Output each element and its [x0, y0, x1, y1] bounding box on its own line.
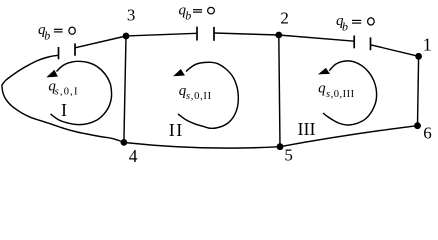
loop arrow I (arc)	[51, 61, 112, 124]
wire: node 2 to capacitor C3	[279, 35, 354, 41]
wire: capacitor C1 to node 3	[75, 36, 126, 48]
wire: node 4 to node 5 (bottom)	[124, 142, 280, 148]
label qb=0 over capacitor C3	[336, 13, 374, 34]
label qs,0,II inside loop II	[179, 83, 212, 102]
label qb=0 over capacitor C1	[38, 22, 75, 42]
svg-text:1: 1	[423, 35, 432, 55]
loop arrow II (arc)	[178, 62, 238, 128]
svg-text:b: b	[342, 20, 348, 34]
svg-text:III: III	[298, 119, 316, 139]
capacitor C3 right plate	[370, 37, 372, 50]
node 1	[415, 53, 422, 60]
loop arrow III (arc)	[323, 61, 377, 125]
svg-text:2: 2	[280, 8, 289, 27]
wire: node 3 to capacitor C2	[126, 33, 197, 36]
svg-text:3: 3	[127, 5, 135, 24]
wire: capacitor C3 to node 1	[371, 45, 419, 57]
loop arrow I arrowhead	[47, 70, 57, 77]
capacitor C2 left plate	[196, 27, 198, 41]
capacitor C3 left plate	[353, 36, 355, 49]
svg-text:s,0,III: s,0,III	[326, 89, 355, 100]
loop arrow III arrowhead	[319, 68, 330, 74]
svg-text:b: b	[185, 9, 191, 23]
capacitor C2 right plate	[213, 27, 215, 41]
capacitor C1 right plate	[74, 43, 76, 55]
svg-text:5: 5	[284, 145, 293, 164]
node 4	[121, 139, 128, 146]
label qs,0,I inside loop I	[48, 79, 78, 98]
svg-text:q: q	[318, 81, 326, 97]
wire: edge capacitor C1 to left bulge (upper branch of outer loop)	[2, 55, 59, 85]
node 2	[275, 32, 282, 39]
wire: edge left bulge down to node 4 (lower branch of outer loop)	[2, 85, 124, 142]
wire: node 2 to node 5 (vertical)	[279, 35, 280, 147]
wire: node 1 to node 6 (vertical)	[418, 56, 419, 125]
svg-text:s,0,II: s,0,II	[186, 91, 212, 102]
node 3	[123, 33, 130, 40]
node 5	[277, 143, 284, 150]
label qb=0 over capacitor C2	[179, 2, 215, 22]
svg-text:6: 6	[423, 123, 432, 142]
svg-text:4: 4	[129, 146, 138, 166]
wire: node 3 to node 4 (vertical)	[124, 36, 126, 142]
label qs,0,III inside loop III	[318, 81, 354, 100]
wire: capacitor C2 to node 2	[214, 33, 279, 35]
svg-text:s,0,I: s,0,I	[55, 87, 79, 98]
capacitor C1 left plate	[58, 47, 60, 59]
svg-text:b: b	[44, 28, 50, 42]
svg-text:II: II	[169, 120, 184, 140]
svg-text:I: I	[61, 100, 67, 120]
wire: node 5 to node 6 (bottom)	[280, 126, 418, 147]
loop arrow II arrowhead	[174, 70, 185, 76]
node 6	[414, 122, 421, 129]
